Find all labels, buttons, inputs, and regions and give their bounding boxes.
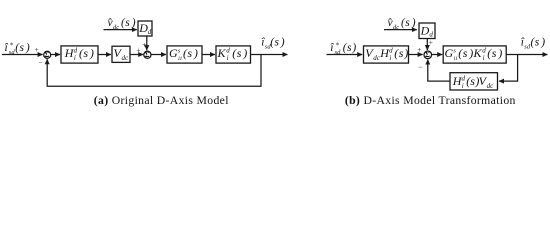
svg-text:(b) D-Axis Model Transformatio: (b) D-Axis Model Transformation (345, 94, 516, 107)
svg-text:): ) (131, 17, 136, 29)
svg-text:s: s (347, 42, 352, 54)
svg-text:K: K (473, 46, 483, 60)
svg-text:K: K (217, 46, 227, 60)
svg-text:i: i (483, 54, 485, 62)
svg-text:): ) (89, 46, 94, 60)
svg-text:): ) (242, 46, 247, 60)
svg-text:G: G (445, 46, 454, 60)
svg-text:Σ: Σ (425, 50, 430, 59)
svg-text:+: + (142, 40, 146, 49)
svg-text:s: s (20, 42, 25, 54)
svg-text:): ) (280, 36, 285, 48)
svg-text:dc: dc (487, 82, 495, 90)
svg-text:−: − (38, 58, 42, 67)
svg-text:d: d (482, 46, 486, 54)
svg-text:d: d (462, 74, 466, 82)
svg-text:): ) (540, 36, 545, 48)
svg-text:D: D (420, 23, 430, 37)
svg-text:): ) (351, 42, 356, 54)
svg-text:dc: dc (122, 54, 130, 62)
svg-text:s: s (275, 36, 280, 48)
svg-text:d: d (226, 46, 230, 54)
svg-text:): ) (403, 46, 408, 60)
svg-text:+: + (417, 45, 421, 54)
svg-text:s: s (463, 46, 468, 60)
svg-text:(a) Original D-Axis Model: (a) Original D-Axis Model (94, 94, 229, 107)
svg-text:s: s (125, 17, 130, 29)
svg-text:): ) (411, 17, 416, 29)
svg-text:s: s (399, 46, 404, 60)
svg-text:D: D (138, 21, 148, 35)
svg-text:Σ: Σ (145, 50, 150, 59)
svg-text:i: i (462, 82, 464, 90)
svg-text:+: + (35, 45, 39, 54)
svg-text:): ) (25, 42, 30, 54)
svg-text:s: s (83, 46, 88, 60)
svg-text:+: + (136, 46, 140, 55)
svg-text:i: i (227, 54, 229, 62)
svg-text:s: s (405, 17, 410, 29)
svg-text:s: s (187, 46, 192, 60)
svg-text:+: + (429, 37, 433, 46)
svg-text:s: s (492, 46, 497, 60)
svg-text:d: d (74, 46, 78, 54)
svg-text:): ) (468, 46, 473, 60)
svg-text:s: s (535, 36, 540, 48)
svg-text:i: i (389, 54, 391, 62)
svg-text:): ) (497, 46, 502, 60)
svg-text:s: s (237, 46, 242, 60)
svg-text:): ) (193, 46, 198, 60)
svg-text:11: 11 (178, 56, 183, 62)
svg-text:Σ: Σ (44, 50, 49, 59)
svg-text:−: − (418, 62, 422, 71)
svg-text:i: i (74, 54, 76, 62)
svg-text:d: d (389, 46, 393, 54)
svg-text:sd: sd (335, 49, 342, 56)
svg-text:d: d (148, 28, 152, 36)
